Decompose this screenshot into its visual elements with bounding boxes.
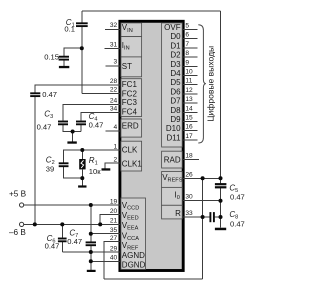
wire R1 top lead [81, 150, 83, 159]
node I0/C5 [219, 199, 223, 203]
wire C1 lower lead down to FC2 corner [81, 26, 83, 93]
svg-text:18: 18 [185, 152, 193, 159]
cell R [162, 205, 183, 219]
svg-text:ST: ST [122, 62, 132, 71]
cell FC1-FC4 [121, 79, 142, 117]
svg-text:0.47: 0.47 [89, 120, 104, 129]
svg-text:D2: D2 [170, 51, 181, 60]
brace digital outputs [198, 25, 206, 143]
wire pin 32 stub [105, 28, 120, 30]
wire 0.47 cap down to -6V rail [34, 96, 36, 224]
svg-text:5: 5 [185, 23, 189, 30]
cell ST [121, 57, 142, 77]
svg-text:–6 В: –6 В [9, 228, 26, 237]
svg-text:FC2: FC2 [122, 89, 138, 98]
ground CLK1 [102, 168, 111, 170]
node -6V/0.47 [33, 222, 37, 226]
cell I0 [162, 187, 183, 205]
svg-text:10: 10 [185, 69, 193, 76]
node AGND [89, 250, 93, 254]
node DGND [89, 259, 93, 263]
svg-text:+5 В: +5 В [9, 189, 27, 198]
node R1 bottom [80, 176, 84, 180]
svg-text:0.47: 0.47 [37, 123, 52, 132]
svg-text:24: 24 [110, 98, 118, 105]
right column cells [162, 23, 183, 219]
wire pin 21 VEEA line [100, 223, 120, 225]
wire R1 bottom lead [81, 169, 83, 185]
svg-text:OVF: OVF [164, 23, 181, 32]
wire pin 2 CLK1 stub to ground [105, 163, 120, 168]
capacitor C2 39 [59, 163, 69, 166]
cell OVF/D0-D11 [162, 23, 183, 147]
svg-text:CLK: CLK [122, 145, 138, 154]
wire C3/C4 ground lead [72, 132, 74, 142]
wire pin 30 I0 line [183, 200, 220, 202]
svg-text:4: 4 [114, 124, 118, 131]
resistor R1 10k [79, 159, 85, 169]
svg-text:D5: D5 [170, 78, 181, 87]
wire C6 top lead [61, 224, 63, 237]
cell VREFS [162, 172, 183, 188]
capacitor C5 [215, 184, 227, 187]
wire pin 27 VREF line [104, 242, 120, 279]
svg-text:32: 32 [110, 22, 118, 29]
cell power VCCD..DGND [121, 198, 146, 269]
svg-text:FC4: FC4 [122, 108, 138, 117]
svg-text:29: 29 [110, 245, 118, 252]
node C1/0.15 [80, 46, 84, 50]
svg-text:27: 27 [110, 235, 118, 242]
wire pin 20 VEED bracket [100, 215, 120, 225]
svg-text:D10: D10 [166, 124, 181, 133]
svg-text:17: 17 [185, 133, 193, 140]
svg-text:D11: D11 [167, 133, 182, 142]
svg-text:DGND: DGND [122, 261, 146, 270]
wire pin 33 R line to C8 [183, 216, 209, 218]
svg-text:10к: 10к [89, 167, 101, 176]
wire pin 31 stub [105, 47, 120, 49]
svg-text:D8: D8 [170, 106, 181, 115]
svg-text:28: 28 [110, 78, 118, 85]
wire top rail C1 to right vertical [82, 10, 221, 12]
wire C5 bottom lead [220, 187, 222, 217]
left cell pin names [122, 23, 146, 269]
terminal +5V [20, 203, 24, 207]
svg-text:AGND: AGND [122, 251, 145, 260]
node -6V/VEED [98, 222, 102, 226]
node CLK/R1 top [80, 148, 84, 152]
wire pin 3 stub [105, 65, 120, 67]
svg-text:D1: D1 [170, 41, 181, 50]
svg-text:0.1: 0.1 [64, 25, 75, 34]
wire pin 35 VCCA line [91, 233, 120, 235]
svg-text:35: 35 [110, 227, 118, 234]
wire right vertical VREFS to bottom rail [202, 178, 204, 279]
cell ERD [121, 119, 142, 137]
svg-text:FC1: FC1 [122, 80, 138, 89]
svg-text:0.47: 0.47 [67, 237, 82, 246]
capacitor 0.47 FC1 [30, 93, 40, 96]
left pin numbers [110, 22, 118, 261]
wire bottom rail under IC [104, 278, 202, 280]
ground 0.15 [59, 66, 69, 68]
svg-text:1: 1 [114, 143, 118, 150]
svg-text:D4: D4 [170, 69, 181, 78]
right cell pin names [164, 23, 181, 218]
wire C4 bottom lead [80, 124, 82, 131]
digital output stubs pins 5-17 [183, 30, 197, 140]
cell IIN [121, 37, 142, 57]
svg-text:26: 26 [185, 171, 193, 178]
svg-text:16: 16 [185, 124, 193, 131]
node C3/C4 ground [71, 130, 75, 134]
wire C8 ground lead [220, 217, 222, 228]
right pin numbers [185, 23, 193, 218]
node VREFS left [201, 176, 205, 180]
wire pin 1 CLK line [64, 150, 120, 162]
svg-text:33: 33 [185, 210, 193, 217]
ground power rail [87, 270, 96, 272]
capacitor C4 [76, 122, 86, 125]
node R/C8 left [201, 215, 205, 219]
svg-text:30: 30 [185, 194, 193, 201]
svg-text:FC3: FC3 [122, 98, 138, 107]
cell CLK/CLK1 [121, 141, 142, 171]
ground C3/C4 [67, 141, 76, 143]
left column cells [121, 23, 146, 270]
wire right rail top vertical [220, 11, 222, 184]
capacitor C7 [86, 242, 96, 245]
wire VCCA to C7 [90, 234, 92, 242]
wire C3 bottom lead [63, 124, 81, 131]
capacitor C3 [58, 122, 68, 125]
svg-text:D0: D0 [170, 32, 181, 41]
node VREFS/C5 [219, 176, 223, 180]
wire +5V rail to pin 19 [24, 204, 120, 206]
ground C8 [215, 228, 226, 231]
svg-text:0.47: 0.47 [42, 90, 57, 99]
svg-text:D3: D3 [170, 60, 181, 69]
wire pin 26 VREFS line [183, 177, 220, 179]
wire pin 18 RAD stub [183, 158, 199, 160]
svg-text:14: 14 [185, 105, 193, 112]
wire 0.15 cap to ground [63, 60, 65, 66]
terminal -6V [20, 222, 24, 226]
svg-text:13: 13 [185, 96, 193, 103]
svg-text:Цифровые выходы: Цифровые выходы [206, 46, 216, 122]
svg-text:11: 11 [185, 78, 192, 85]
wire C8 right lead [214, 216, 221, 218]
wire C7 bottom to AGND/DGND ground [90, 245, 92, 270]
cell RAD [162, 151, 183, 168]
wire pin 22 FC2 line [82, 93, 120, 95]
svg-text:R: R [175, 209, 181, 218]
wire C6 bottom lead to AGND line [61, 242, 63, 252]
wire C1 upper lead [81, 11, 83, 23]
svg-text:15: 15 [185, 115, 193, 122]
svg-text:7: 7 [185, 41, 189, 48]
wire -6V rail [24, 223, 101, 225]
svg-text:20: 20 [110, 208, 118, 215]
svg-text:D9: D9 [170, 115, 181, 124]
svg-text:0.47: 0.47 [45, 242, 60, 251]
wire C2 bottom lead [64, 166, 83, 178]
wire pin 34 FC4 line [81, 112, 120, 120]
svg-text:31: 31 [110, 42, 118, 49]
svg-text:39: 39 [46, 164, 54, 173]
svg-text:6: 6 [185, 32, 189, 39]
wire 0.15 branch from node [64, 48, 82, 56]
svg-text:40: 40 [110, 255, 118, 262]
svg-text:CLK1: CLK1 [122, 160, 143, 169]
node -6V/C6 [60, 222, 64, 226]
wire pin 40 DGND line [91, 260, 120, 262]
capacitor C8 (series, vertical plates) [210, 212, 214, 222]
wire pin 29 AGND line [62, 251, 120, 253]
svg-text:RAD: RAD [164, 155, 181, 164]
ground R1 [78, 185, 86, 187]
node VCCA [89, 232, 93, 236]
wire pin 28 FC1 line [35, 85, 120, 93]
svg-text:0.47: 0.47 [230, 220, 245, 229]
svg-text:21: 21 [110, 218, 118, 225]
svg-text:2: 2 [114, 156, 118, 163]
wire pin 24 FC3 line [63, 104, 120, 120]
wire pin 4 ERD stub [105, 130, 120, 132]
svg-text:9: 9 [185, 59, 189, 66]
svg-text:19: 19 [110, 198, 118, 205]
svg-text:22: 22 [110, 87, 118, 94]
svg-text:0.15: 0.15 [44, 53, 59, 62]
capacitor C6 [58, 239, 67, 242]
svg-text:34: 34 [110, 106, 118, 113]
ADC IC U1 body [120, 21, 183, 270]
node +5V rail [89, 203, 93, 207]
svg-text:ERD: ERD [122, 122, 139, 131]
cell VIN [121, 23, 142, 37]
svg-text:D6: D6 [170, 87, 181, 96]
node C8 right [219, 215, 223, 219]
svg-text:0.47: 0.47 [230, 193, 245, 202]
svg-text:D7: D7 [170, 97, 181, 106]
svg-text:12: 12 [185, 87, 193, 94]
svg-text:8: 8 [185, 50, 189, 57]
svg-text:3: 3 [114, 59, 118, 66]
capacitor 0.15 [59, 57, 69, 60]
capacitor C1 0.1 [76, 23, 88, 26]
wire +5V vertical to VCCA [90, 205, 92, 234]
